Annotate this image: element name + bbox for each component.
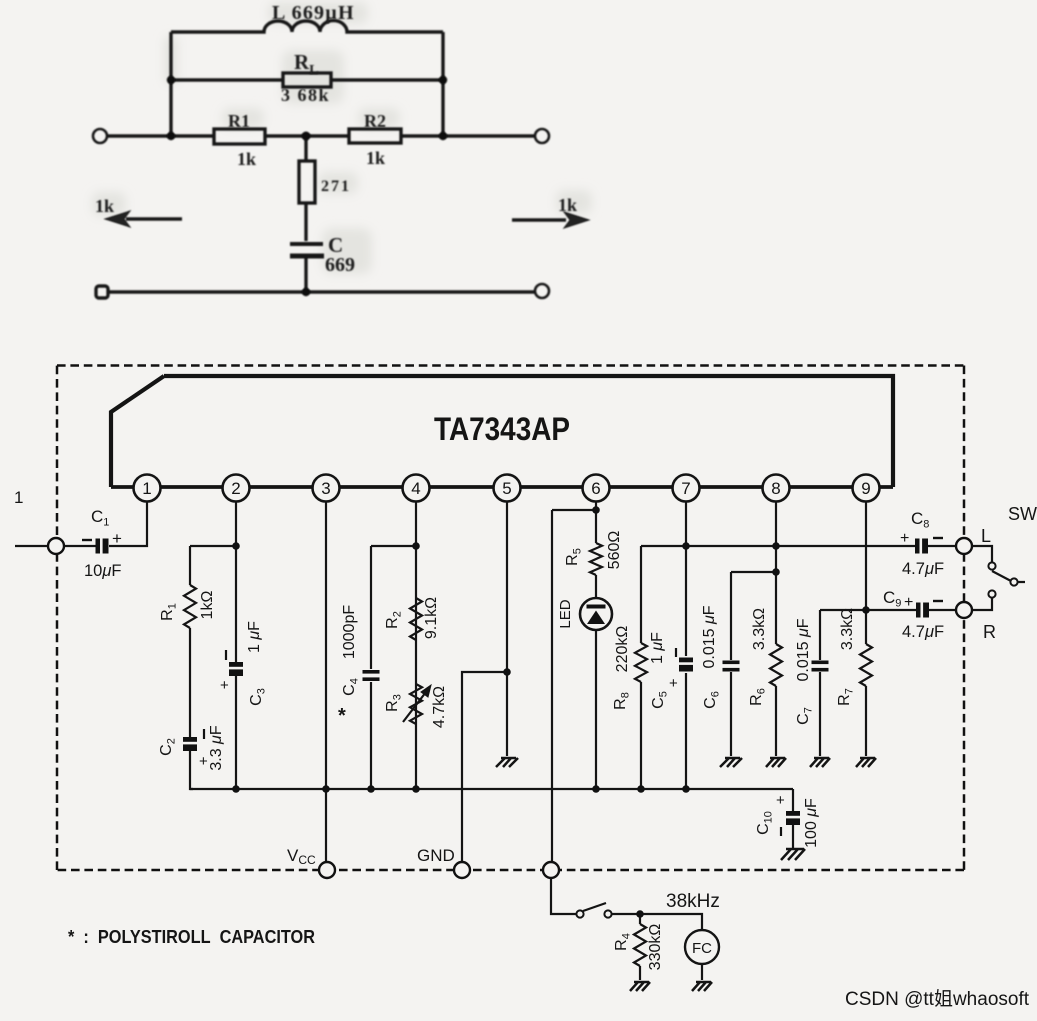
resistor R2 box (349, 129, 401, 143)
label C5 minus (675, 648, 677, 657)
svg-text:R: R (983, 622, 996, 642)
wire cap to bottom (304, 256, 307, 292)
wire switch branch vertical (551, 510, 553, 862)
label C2 minus (203, 729, 205, 739)
pin 8 (763, 475, 790, 502)
capacitor C1 10uF (96, 539, 109, 554)
wire L terminal to switch top contact (972, 546, 992, 562)
label C3 minus (225, 650, 227, 660)
node main row right (439, 132, 447, 140)
wire R1/C2 branch vertical (190, 546, 193, 789)
wire RL row (171, 78, 443, 81)
R3 wiper arrow (403, 692, 426, 722)
switch pole (1010, 578, 1017, 585)
node pin9 C9 row (862, 606, 870, 614)
wire R terminal to switch bottom contact (972, 598, 992, 610)
node bottom center (302, 288, 310, 296)
capacitor C9 4.7uF (916, 603, 929, 618)
pin 3 (313, 475, 340, 502)
oscillator FC 38kHz (685, 930, 719, 964)
svg-text:1000pF: 1000pF (341, 605, 358, 659)
ground R7/pin9 (856, 758, 876, 767)
terminal switch branch (543, 862, 559, 878)
pin 7 (673, 475, 700, 502)
wire C9 row (820, 609, 956, 611)
wire C8 row (686, 545, 956, 547)
capacitor C 669 (290, 242, 323, 246)
svg-text:7: 7 (681, 479, 690, 498)
svg-text:6: 6 (591, 479, 600, 498)
svg-text:669: 669 (325, 254, 355, 276)
svg-text:4: 4 (411, 479, 420, 498)
svg-text:CSDN @tt姐whaosoft: CSDN @tt姐whaosoft (845, 988, 1030, 1010)
svg-text:8: 8 (771, 479, 780, 498)
bottom switch contact right (604, 910, 611, 917)
svg-text:+: + (199, 753, 208, 770)
svg-text:3: 3 (321, 479, 330, 498)
svg-text:3.3kΩ: 3.3kΩ (751, 608, 768, 650)
capacitor C8 4.7uF (915, 539, 928, 554)
svg-text:* : POLYSTIROLL CAPACITOR: * : POLYSTIROLL CAPACITOR (68, 926, 315, 947)
terminal input (48, 538, 64, 554)
arrow 1k left (126, 217, 182, 220)
wire pin2 to R1 top (190, 545, 236, 547)
svg-text:5: 5 (502, 479, 511, 498)
svg-text:2: 2 (231, 479, 240, 498)
label C8 minus (933, 537, 943, 539)
terminal bottom right (535, 284, 549, 298)
wire pin5 jog to GND terminal (462, 672, 507, 862)
wire R8 top (641, 545, 686, 547)
node pin2 bus (232, 785, 240, 793)
label C1 minus (82, 539, 92, 541)
terminal Vcc (319, 862, 335, 878)
node pin8 C6 row (772, 568, 780, 576)
svg-text:9.1kΩ: 9.1kΩ (423, 597, 440, 639)
terminal R output (956, 602, 972, 618)
terminal input top (93, 129, 107, 143)
wire main row (107, 134, 535, 137)
node C4 bus (367, 785, 375, 793)
wire pin 4 vertical (415, 501, 417, 789)
capacitor C2 3.3uF (183, 737, 197, 751)
svg-text:1: 1 (14, 488, 23, 507)
svg-text:3.3kΩ: 3.3kΩ (839, 608, 856, 650)
node pin6 bus (592, 785, 600, 793)
terminal bottom left (96, 286, 108, 298)
wire pin 8 vertical to ground (775, 501, 777, 756)
svg-text:1: 1 (142, 479, 151, 498)
svg-text:L: L (981, 526, 991, 546)
node C4 top (412, 542, 420, 550)
svg-text:4.7μF: 4.7μF (902, 560, 944, 578)
node pin7 bus (682, 785, 690, 793)
svg-text:R1: R1 (228, 111, 250, 131)
resistor R2 (410, 598, 422, 640)
svg-text:+: + (904, 594, 913, 611)
arrow 1k right (512, 218, 566, 221)
wire input terminal to C1 (64, 545, 96, 547)
ground FC (692, 982, 712, 991)
switch contact bottom (988, 590, 995, 597)
node pin2-R1 (232, 542, 240, 550)
wire bottom switch to FC (612, 914, 702, 930)
svg-text:9: 9 (861, 479, 870, 498)
capacitor C6 0.015uF (723, 661, 740, 665)
resistor 271 vertical (304, 136, 307, 161)
svg-text:*: * (338, 705, 346, 727)
pin 1 (134, 475, 161, 502)
resistor R1 box (214, 129, 265, 144)
svg-text:1k: 1k (237, 149, 256, 169)
node pin3 bus (322, 785, 330, 793)
node top-right RL row (439, 76, 447, 84)
resistor R5 (590, 543, 602, 575)
node top-left RL row (167, 76, 175, 84)
pin 5 (494, 475, 521, 502)
label C9 minus (933, 600, 943, 602)
wire pin 2 vertical (235, 501, 237, 789)
wire R8 vertical (640, 546, 642, 789)
svg-text:100 μF: 100 μF (803, 798, 820, 848)
potentiometer R3 (410, 684, 422, 724)
wire input stub (15, 545, 48, 547)
node pin8 C8 row (772, 542, 780, 550)
pin 4 (403, 475, 430, 502)
resistor RL box (283, 73, 331, 87)
svg-text:1 μF: 1 μF (649, 632, 666, 664)
svg-text:GND: GND (417, 846, 455, 865)
node main row center (302, 132, 311, 141)
wire pin 9 vertical to ground (865, 501, 867, 756)
svg-text:+: + (776, 792, 785, 809)
svg-text:SW: SW (1008, 504, 1037, 524)
capacitor C3 1uF (229, 662, 243, 676)
svg-text:4.7μF: 4.7μF (902, 623, 944, 641)
node bottom switch R4 (636, 910, 644, 918)
bottom switch lever (583, 903, 606, 911)
ground bus wire (190, 788, 793, 790)
svg-text:1k: 1k (95, 196, 114, 216)
svg-text:1kΩ: 1kΩ (199, 591, 216, 620)
switch SW lever (992, 571, 1025, 582)
ground pin5 (496, 758, 518, 767)
svg-text:271: 271 (321, 178, 351, 195)
svg-text:L 669µH: L 669µH (272, 2, 355, 24)
wire pin 3 vertical to Vcc (325, 501, 327, 862)
bottom switch contact left (576, 910, 583, 917)
svg-text:+: + (112, 529, 122, 548)
wire R4 vertical (639, 914, 641, 980)
terminal output top (535, 129, 549, 143)
ground C7 (810, 758, 830, 767)
dashed enclosure border (57, 366, 964, 871)
svg-text:1k: 1k (558, 195, 577, 215)
svg-text:1k: 1k (366, 148, 385, 168)
ground C6 (720, 758, 742, 767)
svg-text:560Ω: 560Ω (606, 531, 623, 570)
ground R4 (630, 982, 650, 991)
svg-text:330kΩ: 330kΩ (647, 924, 664, 971)
wire C7 branch (819, 610, 821, 756)
resistor R7 (860, 644, 872, 686)
op-amp IC TA7343AP body (111, 376, 893, 487)
wire FC to ground (701, 964, 703, 980)
node main row left (167, 132, 175, 140)
resistor R6 (770, 644, 782, 686)
svg-text:+: + (220, 677, 229, 694)
wire pin 5 vertical to ground (506, 501, 508, 756)
svg-text:R2: R2 (364, 111, 386, 131)
inductor L 669uH (171, 21, 443, 32)
node pin7 C8 row (682, 542, 690, 550)
svg-text:38kHz: 38kHz (666, 891, 720, 912)
pin 6 (583, 475, 610, 502)
svg-text:220kΩ: 220kΩ (614, 626, 631, 673)
svg-text:LED: LED (557, 599, 574, 628)
resistor R4 (634, 924, 646, 966)
capacitor C5 1uF (679, 658, 693, 672)
wire C6 branch (731, 572, 776, 756)
svg-text:FC: FC (692, 940, 712, 957)
node pin6 switch branch (592, 506, 600, 514)
svg-text:+: + (900, 530, 909, 547)
svg-text:TA7343AP: TA7343AP (434, 411, 570, 447)
svg-text:0.015 μF: 0.015 μF (795, 618, 812, 681)
wire C10 branch (792, 789, 794, 848)
node R8 bus (637, 785, 645, 793)
node pin5 jog (503, 668, 511, 676)
capacitor C10 100uF (786, 811, 800, 825)
ground C10 (781, 849, 805, 860)
svg-text:3.3 μF: 3.3 μF (208, 725, 225, 770)
resistor R1 (184, 585, 196, 628)
wire pin6 to switch branch (552, 509, 596, 511)
capacitor C4 1000pF (363, 670, 380, 674)
svg-text:3 68k: 3 68k (281, 85, 330, 105)
svg-text:10μF: 10μF (84, 562, 122, 580)
resistor R8 (635, 643, 647, 682)
svg-text:1 μF: 1 μF (246, 621, 263, 653)
pin 2 (223, 475, 250, 502)
LED D1 (580, 598, 612, 630)
ground R6/pin8 (766, 758, 786, 767)
wire top loop right vertical (441, 32, 444, 136)
pin 9 (853, 475, 880, 502)
capacitor C7 0.015uF (812, 661, 829, 665)
label C10 minus (780, 827, 782, 836)
svg-text:4.7kΩ: 4.7kΩ (431, 686, 448, 728)
wire C4 branch (371, 546, 416, 789)
node pin4 bus (412, 785, 420, 793)
terminal GND (454, 862, 470, 878)
wire below sw terminal to bottom switch (551, 878, 576, 914)
svg-text:0.015 μF: 0.015 μF (701, 605, 718, 668)
wire pin 6 vertical (595, 501, 597, 789)
switch contact top (988, 562, 995, 569)
wire bottom row (109, 290, 535, 293)
wire top loop left vertical (169, 32, 172, 136)
svg-text:+: + (669, 675, 678, 692)
wire C1 to pin 1 (109, 501, 147, 546)
wire pin 7 vertical (685, 501, 687, 789)
terminal L output (956, 538, 972, 554)
